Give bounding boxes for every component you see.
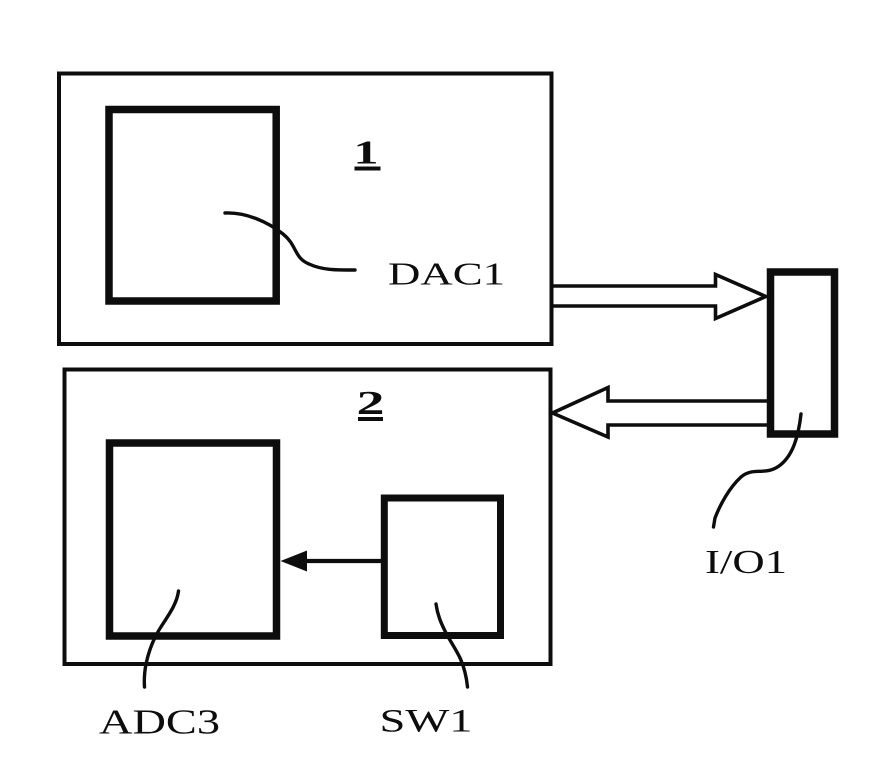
hollow arrow block1 to I/O1 — [553, 275, 766, 319]
DAC1 inner box — [109, 110, 276, 302]
svg-text:I/O1: I/O1 — [705, 544, 787, 581]
DAC1 leader wire — [225, 213, 355, 270]
svg-text:1: 1 — [354, 135, 379, 172]
ADC3 inner box — [110, 443, 277, 636]
hollow arrow I/O1 to block2 — [553, 388, 768, 438]
SW1 leader wire — [436, 604, 468, 687]
label 1 — [354, 135, 381, 172]
arrow SW1 to ADC3 — [281, 551, 383, 572]
I/O1 box — [771, 272, 835, 434]
ADC3 leader wire — [144, 591, 178, 687]
label 2 — [357, 385, 385, 422]
SW1 box — [384, 498, 500, 636]
I/O1 leader wire — [714, 414, 802, 527]
block 2 outer box — [65, 370, 551, 665]
svg-text:2: 2 — [357, 385, 385, 422]
svg-text:SW1: SW1 — [380, 704, 473, 740]
block 1 outer box — [59, 74, 552, 345]
svg-text:ADC3: ADC3 — [99, 703, 220, 742]
svg-text:DAC1: DAC1 — [388, 256, 505, 292]
